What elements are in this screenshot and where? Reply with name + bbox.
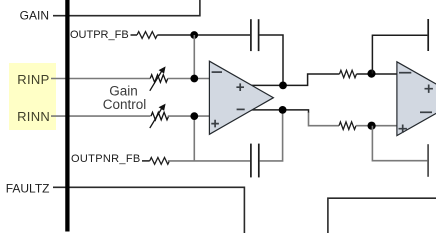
capacitor C4 plate (clipped at edge)	[427, 144, 429, 177]
wire node to capacitor C1	[194, 34, 250, 36]
svg-text:RINP: RINP	[17, 72, 49, 87]
wire GAIN pin	[53, 0, 200, 16]
node stage2 lower	[368, 122, 376, 130]
wire node up to capacitor C3	[372, 35, 427, 73]
resistor OUTPNR_FB feedback	[150, 158, 170, 165]
wire node down to capacitor C4	[372, 126, 427, 161]
node RINP summing	[190, 75, 198, 83]
wire OUTPR_FB to resistor	[131, 34, 138, 36]
wire resistor to op-amp U2 upper input	[357, 73, 397, 75]
resistor stage2 lower	[339, 122, 356, 130]
svg-text:FAULTZ: FAULTZ	[6, 182, 50, 196]
node lower output	[279, 106, 287, 114]
wire gain resistor to RINP node	[168, 78, 209, 80]
op-amp U2 (second stage, clipped at right edge)	[397, 62, 436, 136]
wire OUTPNR_FB to resistor	[142, 160, 150, 162]
variable resistor gain control (lower)	[151, 112, 169, 120]
capacitor C2 (lower feedback)	[251, 144, 259, 178]
svg-text:RINN: RINN	[17, 109, 50, 124]
svg-text:OUTPNR_FB: OUTPNR_FB	[71, 153, 141, 165]
wire FAULTZ pin	[53, 187, 244, 233]
wire RINP pin to gain resistor	[51, 78, 150, 80]
node upper output	[279, 82, 287, 90]
variable resistor gain control (upper)	[150, 75, 168, 83]
svg-text:Control: Control	[103, 97, 147, 112]
capacitor C3 plate (clipped at edge)	[427, 19, 429, 51]
wire junction to capacitor C2	[195, 160, 250, 162]
capacitor C1 (upper feedback)	[251, 19, 259, 51]
resistor stage2 upper	[340, 70, 357, 77]
wire resistor to op-amp U2 lower input	[356, 125, 397, 127]
node stage2 upper	[367, 70, 375, 78]
wire resistor to junction	[168, 160, 195, 162]
node OUTPR_FB junction	[190, 31, 198, 39]
wire lower output to stage2	[250, 110, 309, 113]
wire upper output to stage2	[246, 74, 340, 85]
block lower-right (clipped)	[328, 198, 436, 233]
svg-text:GAIN: GAIN	[20, 8, 49, 22]
node RINN summing	[190, 112, 198, 120]
highlight RINP/RINN pins	[9, 63, 56, 130]
wire gain resistor to RINN node	[168, 115, 209, 117]
wire vertical OUTPR node to RINP node	[193, 35, 195, 79]
IC boundary	[65, 0, 69, 232]
resistor OUTPR_FB feedback	[137, 32, 157, 39]
wire RINN pin to gain resistor	[51, 115, 151, 117]
wire vertical RINN node to OUTPNR junction	[193, 116, 195, 161]
wire C2 to lower output node	[260, 110, 283, 161]
op-amp U1 (fully differential)	[209, 61, 273, 134]
svg-text:OUTPR_FB: OUTPR_FB	[70, 29, 129, 41]
wire C1 to upper output node	[259, 35, 283, 85]
wire resistor to node	[157, 34, 194, 36]
